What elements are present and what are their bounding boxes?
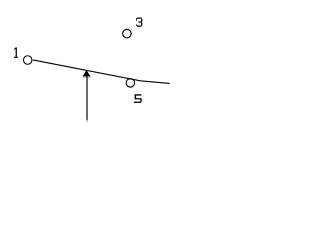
node 3 circle <box>123 29 131 38</box>
arrowhead pointing up, tip on the beam line <box>83 70 90 76</box>
node 1 label: digit 1 drawn as path (bitmap-style with foot) <box>14 47 18 58</box>
wire: beam line from node 1 rightward with slight bend <box>33 60 170 84</box>
stem bottom fade <box>86 120 88 122</box>
wire: vertical support line below arrow <box>86 76 88 120</box>
node 3 label: digit 3 drawn as path (flat-top bitmap style) <box>136 18 142 27</box>
arrowhead base fade <box>83 76 91 78</box>
node 5 circle (hangs below the beam line, tangent at its top) <box>126 79 134 87</box>
node 5 label: digit 5 drawn as path (blocky bitmap style) <box>134 94 142 103</box>
node 1 circle <box>23 56 32 65</box>
